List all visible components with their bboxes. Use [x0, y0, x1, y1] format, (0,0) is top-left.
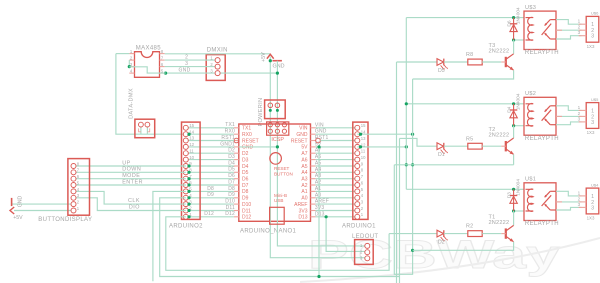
wire net +5V trunk vertical — [405, 18, 407, 190]
wire net 5V branch down — [318, 147, 320, 277]
svg-text:D3: D3 — [507, 192, 513, 198]
svg-text:D9: D9 — [242, 196, 249, 202]
wire net control US2 vertical — [399, 138, 401, 283]
junction junction ARDUINO2 pin3 — [187, 203, 190, 206]
wire wire US2 collector — [513, 126, 515, 138]
svg-text:A7: A7 — [315, 148, 322, 154]
svg-text:3V3: 3V3 — [315, 205, 325, 211]
svg-text:MODE: MODE — [122, 173, 140, 179]
svg-text:UP: UP — [122, 160, 131, 166]
module ARDUINO_NANO1 — [239, 124, 311, 221]
junction junction ARDUINO2 pin14 — [187, 133, 190, 136]
junction junction US2 emitter rail — [405, 163, 408, 166]
pin stub MAX485 pin8 — [160, 53, 165, 55]
wire MAX485 pins2-3 to GND under chip — [129, 67, 165, 73]
junction junction ARDUINO2 pin4 — [187, 196, 190, 199]
wire net control feed US1 — [389, 233, 437, 235]
junction GND1 junction on ICSP GND — [276, 145, 279, 148]
svg-text:1: 1 — [578, 105, 581, 110]
svg-text:A3: A3 — [301, 177, 307, 183]
junction junction ARDUINO2 pin5 — [187, 190, 190, 193]
ARDUINO1 pin circles and numbers — [355, 125, 360, 130]
wire net DOWN — [74, 171, 186, 173]
svg-text:D13: D13 — [315, 211, 325, 217]
svg-text:RST1: RST1 — [315, 135, 329, 141]
connector DATA-DMX — [135, 119, 155, 138]
svg-text:D6: D6 — [507, 20, 513, 26]
svg-text:1: 1 — [578, 190, 581, 195]
svg-text:A4: A4 — [315, 167, 322, 173]
svg-text:5V: 5V — [301, 145, 308, 151]
wire net 5V right — [316, 146, 358, 148]
wire net D13 right — [316, 216, 358, 218]
svg-text:A0: A0 — [315, 192, 322, 198]
wire net US1 NO to connector pin1 — [556, 191, 582, 196]
pin stub MAX485 pin4 — [129, 72, 134, 74]
svg-text:ARDUINO2: ARDUINO2 — [169, 224, 203, 230]
wire DATA-DMX pin1 stub — [140, 127, 142, 134]
wire net RST1 — [186, 140, 234, 142]
junction junction ARDUINO2 pin8 — [187, 171, 190, 174]
svg-text:RELAYPTH: RELAYPTH — [525, 136, 559, 142]
svg-text:D12: D12 — [204, 211, 214, 217]
svg-text:DATA-DMX: DATA-DMX — [129, 88, 135, 119]
pin stub MAX485 pin1 — [129, 53, 134, 55]
wire net +5V rail to US3 coil — [406, 17, 524, 19]
junction junction ARDUINO1 pin14 — [359, 133, 362, 136]
wire net GND trunk vertical — [394, 79, 412, 274]
svg-text:A2: A2 — [315, 180, 322, 186]
svg-text:11: 11 — [189, 148, 194, 153]
wire +5V POWERIN to ICSP col1 — [269, 105, 271, 131]
relay US1 coil — [526, 189, 534, 211]
diode D3 1N4004 — [513, 189, 515, 211]
svg-text:D2: D2 — [438, 239, 445, 245]
svg-text:A1: A1 — [301, 189, 307, 195]
inversion bubble nano RESET right — [316, 138, 321, 143]
svg-text:11: 11 — [361, 149, 366, 154]
supply +5V arrow left — [10, 207, 14, 214]
svg-text:3: 3 — [185, 61, 188, 67]
wire net 3: MAX485 pin6 to DMXIN pin2 — [165, 66, 215, 68]
svg-text:D1: D1 — [438, 152, 445, 158]
wire net D10 — [186, 203, 234, 205]
wire net DIO — [74, 198, 186, 211]
svg-text:R2: R2 — [466, 224, 473, 230]
wire node DATA-DMX: MAX485 pin1 down to ARDUINO2 pin14 — [116, 54, 186, 135]
svg-text:D11: D11 — [226, 205, 235, 211]
svg-text:LEDOUT: LEDOUT — [352, 234, 378, 240]
svg-text:A4: A4 — [301, 170, 307, 176]
wire net D8 — [186, 190, 234, 192]
wire net US1 emitter to GND trunk — [413, 242, 514, 251]
svg-text:VIN: VIN — [315, 122, 324, 128]
svg-text:GND1: GND1 — [220, 141, 235, 147]
svg-text:TX1: TX1 — [242, 126, 251, 132]
pin circle POWERIN 1 — [268, 103, 273, 108]
wire MAX485 pin1 wire — [116, 53, 129, 55]
pin circle DATA-DMX 1 — [139, 122, 144, 127]
wire wire US3 collector — [513, 40, 515, 54]
svg-text:VIN: VIN — [299, 126, 308, 132]
svg-text:BUTTONDISPLAY: BUTTONDISPLAY — [38, 217, 92, 223]
svg-text:13: 13 — [189, 136, 194, 141]
svg-text:ARDUINO_NANO1: ARDUINO_NANO1 — [240, 229, 297, 235]
junction junction D13 — [325, 215, 328, 218]
svg-text:GND: GND — [315, 129, 327, 135]
svg-text:1X3: 1X3 — [587, 216, 595, 221]
wire net GND from ARDUINO1 pin14 to GND trunk — [357, 133, 412, 135]
svg-text:GND: GND — [18, 196, 24, 208]
svg-text:2: 2 — [578, 196, 581, 201]
svg-text:D10: D10 — [225, 199, 235, 205]
ARDUINO2 pin circles and numbers — [183, 125, 188, 130]
ARDUINO_NANO1 right pin stubs — [311, 127, 316, 129]
header ICSP — [267, 122, 289, 135]
svg-text:12: 12 — [189, 142, 194, 147]
relay US3 RELAYPTH — [524, 11, 556, 49]
svg-text:DIO: DIO — [129, 205, 140, 211]
svg-text:1X3: 1X3 — [587, 130, 595, 135]
junction junction diode D6 top — [512, 16, 515, 19]
svg-text:U$3: U$3 — [525, 5, 536, 11]
svg-text:RESET: RESET — [242, 138, 259, 144]
relay US3 coil — [526, 17, 534, 40]
svg-text:D4: D4 — [242, 164, 249, 170]
svg-text:2: 2 — [578, 25, 581, 30]
svg-text:RX0: RX0 — [242, 132, 252, 138]
svg-text:D5: D5 — [228, 167, 235, 173]
diode D4 1N4004 — [513, 104, 515, 126]
svg-text:U$1: U$1 — [525, 177, 536, 183]
connector POWERIN — [265, 100, 286, 119]
wire net A4 right — [316, 171, 358, 173]
svg-text:GND: GND — [242, 145, 254, 151]
svg-text:D6: D6 — [228, 173, 235, 179]
svg-text:GND: GND — [179, 67, 191, 73]
svg-text:A5: A5 — [301, 164, 307, 170]
svg-text:USB: USB — [274, 198, 283, 203]
wire net D6 — [186, 178, 234, 180]
pin circle DMXIN 3 — [215, 71, 220, 76]
wire net D11 — [186, 210, 234, 212]
junction junction ARDUINO2 pin6 — [187, 183, 190, 186]
junction junction 5V trunk US2 — [405, 102, 408, 105]
wire wire US1 collector — [513, 211, 515, 225]
relay US1 RELAYPTH — [524, 183, 556, 221]
svg-text:POWERIN: POWERIN — [258, 98, 264, 127]
wire net control feed US2 — [400, 138, 438, 146]
relay US2 RELAYPTH — [524, 97, 556, 135]
pin circle DMXIN 2 — [215, 64, 220, 69]
svg-text:A7: A7 — [301, 151, 307, 157]
wire net D12 — [186, 216, 234, 218]
svg-text:15: 15 — [361, 123, 366, 128]
wire net GND: MAX485 pin5 through DMXIN pin3 to GND rail — [165, 72, 278, 74]
junction MAX485 pin5 / GND tie — [164, 72, 167, 75]
wire net US2 NC to connector pin3 — [556, 122, 582, 125]
svg-text:RESET: RESET — [274, 166, 290, 171]
junction junction diode D3 top — [512, 188, 515, 191]
wire net control rail from ARDUINO2 pin1 to US1 driver — [166, 217, 389, 270]
pin circle LEDOUT 3 — [365, 256, 370, 261]
wire net GND1 into nano — [239, 146, 278, 148]
wire net RST1 right — [320, 140, 357, 142]
svg-text:2N2222: 2N2222 — [489, 48, 510, 54]
wire net control feed US3 — [397, 61, 438, 63]
svg-text:D10: D10 — [242, 202, 251, 208]
svg-text:TX1: TX1 — [225, 122, 235, 128]
wire wire R5 to T2 base — [482, 145, 501, 147]
pin circle LEDOUT 2 — [365, 250, 370, 255]
ARDUINO_NANO1 left pin stubs — [234, 127, 239, 129]
junction junction GND trunk / US1 emitter — [411, 249, 414, 252]
svg-text:D12: D12 — [242, 215, 251, 221]
junction junction diode D6 bottom — [512, 38, 515, 41]
svg-text:D7: D7 — [228, 179, 235, 185]
svg-text:BUTTON: BUTTON — [274, 171, 293, 176]
svg-text:U$2: U$2 — [525, 91, 536, 97]
svg-text:1: 1 — [578, 19, 581, 24]
wire net US3 NC to connector pin3 — [556, 36, 582, 39]
wire net RX0 — [186, 133, 234, 135]
svg-text:D3: D3 — [242, 157, 249, 163]
junction junction diode D4 bottom — [512, 124, 515, 127]
wire net UP — [74, 165, 186, 167]
IC MAX485 — [135, 52, 160, 78]
svg-text:ENTER: ENTER — [122, 179, 143, 185]
diode D6 1N4004 — [513, 18, 515, 40]
svg-text:1X3: 1X3 — [587, 44, 595, 49]
PCBWay watermark — [300, 233, 600, 282]
svg-text:3: 3 — [578, 116, 581, 121]
svg-text:2N2222: 2N2222 — [489, 220, 510, 226]
svg-text:D2: D2 — [228, 148, 235, 154]
svg-text:U$4: U$4 — [591, 182, 599, 187]
svg-text:RX0: RX0 — [225, 129, 235, 135]
pin stub MAX485 pin2 — [129, 59, 134, 61]
LED D1 — [437, 143, 444, 150]
junction junction diode D4 top — [512, 102, 515, 105]
wire net US2 NO to connector pin1 — [556, 106, 582, 111]
svg-text:+5V: +5V — [13, 215, 23, 221]
svg-text:D4: D4 — [228, 160, 235, 166]
relay US1 switch contacts — [550, 190, 556, 192]
wire net D3 — [186, 159, 234, 161]
junction junction ARDUINO2 pin7 — [187, 177, 190, 180]
BUTTONDISPLAY pin circles and numbers — [71, 164, 76, 169]
supply +5V top — [267, 54, 274, 58]
wire net D9 — [186, 197, 234, 199]
wire net +5V rail to US1 coil — [406, 188, 524, 190]
wire net US3 NO to connector pin1 — [556, 20, 582, 25]
wire wire D5 cathode to R8 — [444, 61, 468, 63]
inversion bubble nano RESET left — [234, 138, 239, 143]
connector LEDOUT — [355, 240, 374, 265]
svg-text:A0: A0 — [301, 196, 307, 202]
svg-text:D8: D8 — [242, 189, 249, 195]
wire wire R8 to T3 base — [482, 61, 501, 63]
svg-text:AREF: AREF — [294, 202, 307, 208]
wire net D4 — [186, 165, 234, 167]
svg-text:D8: D8 — [207, 186, 214, 192]
wire net A0 right — [316, 197, 358, 199]
svg-text:RST1: RST1 — [221, 135, 235, 141]
pin stub MAX485 pin5 — [160, 72, 165, 74]
wire net A5 right — [316, 165, 358, 167]
wire net 3V3 right — [316, 210, 358, 212]
svg-text:D13: D13 — [298, 215, 307, 221]
junction GND rail junction — [276, 72, 279, 75]
usb connector box — [270, 207, 285, 224]
relay US3 switch contacts — [550, 19, 556, 21]
wire net US3 emitter to GND trunk — [413, 70, 514, 79]
wire net D13 to LEDOUT pin2 — [326, 217, 365, 252]
svg-text:R5: R5 — [466, 136, 473, 142]
svg-text:GND: GND — [296, 132, 308, 138]
wire GND POWERIN to ICSP col2 — [276, 105, 278, 131]
junction junction 5V trunk / pin12 — [405, 145, 408, 148]
pin circle POWERIN 2 — [275, 103, 280, 108]
svg-text:CLK: CLK — [128, 198, 140, 204]
wire DATA-DMX pin2 stub — [146, 127, 148, 134]
wire +5V through nano to LEDOUT pin3 — [270, 131, 364, 258]
svg-text:A1: A1 — [315, 186, 322, 192]
connector ARDUINO2 — [182, 122, 201, 219]
svg-text:AREF: AREF — [315, 199, 329, 205]
svg-text:D9: D9 — [207, 192, 214, 198]
DATA-DMX symbol leads — [139, 128, 150, 131]
resistor R2 — [468, 231, 482, 237]
wire net GND to BUTTONDISPLAY pin2 — [12, 203, 74, 205]
wire net AREF right — [316, 203, 358, 205]
relay US1 COM stub — [556, 201, 562, 203]
svg-text:10: 10 — [361, 155, 366, 160]
wire net US1 NC to connector pin3 — [556, 207, 582, 210]
svg-text:D12: D12 — [225, 211, 235, 217]
svg-text:U$5: U$5 — [591, 97, 599, 102]
junction junction 5V at nano — [317, 145, 320, 148]
svg-text:DMXIN: DMXIN — [207, 48, 228, 54]
svg-text:D2: D2 — [242, 151, 249, 157]
svg-text:3: 3 — [578, 30, 581, 35]
LED D5 — [437, 59, 444, 66]
svg-text:1N4004: 1N4004 — [515, 93, 521, 110]
svg-text:D4: D4 — [507, 106, 513, 112]
ground symbol top — [273, 60, 282, 62]
svg-text:RESET: RESET — [291, 138, 308, 144]
wire net A3 right — [316, 178, 358, 180]
junction junction ARDUINO1 pin12 — [359, 145, 362, 148]
svg-text:D9: D9 — [228, 192, 235, 198]
svg-text:3V3: 3V3 — [299, 208, 308, 214]
wire net MODE — [74, 178, 186, 180]
wire net GND1 — [186, 146, 234, 148]
wire net D5 — [186, 171, 234, 173]
wire wire US2 emitter down — [513, 154, 515, 164]
svg-text:Mini-B: Mini-B — [274, 193, 287, 198]
svg-text:1N4004: 1N4004 — [515, 179, 521, 196]
connector BUTTONDISPLAY — [68, 159, 90, 216]
wire net from ARDUINO2 pin5 down (cropped) — [153, 191, 186, 281]
wire net 5V from ARDUINO1 pin12 to 5V trunk — [357, 146, 406, 148]
svg-text:3: 3 — [578, 202, 581, 207]
wire net +5V rail to US2 coil — [406, 103, 524, 105]
junction junction GND trunk / US2 emitter — [411, 163, 414, 166]
connector DMXIN — [206, 55, 225, 81]
svg-text:D7: D7 — [242, 183, 249, 189]
relay US2 coil — [526, 104, 534, 127]
svg-text:U$6: U$6 — [591, 11, 599, 16]
pin stub MAX485 pin7 — [160, 59, 165, 61]
svg-text:A6: A6 — [301, 157, 307, 163]
svg-text:3: 3 — [591, 34, 594, 40]
junction MAX485 pin2-pin3 tie — [128, 65, 131, 68]
pin stub MAX485 pin3 — [129, 66, 134, 68]
resistor R8 — [468, 59, 482, 65]
svg-text:+5V: +5V — [261, 52, 267, 62]
wire net control US3 vertical — [396, 62, 398, 283]
wire net 5V rail bottom from ARDUINO2 pin4 — [160, 198, 400, 277]
wire +5V from MAX485 pin8 to +5V symbol — [165, 53, 271, 55]
wire net US2 coil bottom — [514, 125, 524, 127]
svg-text:A3: A3 — [315, 173, 322, 179]
wire net A7 right — [316, 152, 358, 154]
svg-text:13: 13 — [361, 136, 366, 141]
pin circle DMXIN 1 — [215, 58, 220, 63]
wire wire D2 cathode to R2 — [444, 233, 468, 235]
junction ARDUINO2 pin14 / DATA-DMX — [187, 133, 190, 136]
pin circle LEDOUT 1 — [365, 243, 370, 248]
pin circle DATA-DMX 2 — [145, 122, 150, 127]
wire GND through nano to LEDOUT pin1 — [277, 131, 364, 246]
wire net A2 right — [316, 184, 358, 186]
svg-text:3: 3 — [591, 205, 594, 211]
svg-text:D6: D6 — [242, 177, 249, 183]
svg-text:GND: GND — [273, 63, 285, 69]
svg-text:D3: D3 — [228, 154, 235, 160]
ground symbol left — [11, 198, 13, 206]
junction junction GND trunk / pin14 — [411, 133, 414, 136]
wire net US3 coil bottom — [514, 39, 524, 41]
svg-text:10: 10 — [189, 155, 194, 160]
junction junction 5V bottom rail — [317, 275, 320, 278]
svg-text:A5: A5 — [315, 161, 322, 167]
wire net D2 — [186, 152, 234, 154]
pin stub MAX485 pin6 — [160, 66, 165, 68]
relay US2 switch contacts — [550, 105, 556, 107]
wire net +5V to BUTTONDISPLAY pin1 — [14, 210, 74, 212]
wire net US2 COM to connector pin2 — [556, 115, 582, 117]
junction POWERIN pin1 junction — [269, 109, 272, 112]
wire net US2 emitter to GND trunk — [394, 164, 513, 166]
svg-text:3: 3 — [591, 120, 594, 126]
relay US2 COM stub — [556, 115, 562, 117]
wire MAX485 RE-DE tie — [128, 60, 130, 67]
wire net A6 right — [316, 159, 358, 161]
svg-text:D5: D5 — [438, 68, 445, 74]
wire +5V down to POWERIN pin1 — [269, 57, 271, 106]
svg-text:1N4004: 1N4004 — [515, 7, 521, 24]
wire net GND right — [316, 133, 358, 135]
svg-text:MAX485: MAX485 — [136, 45, 161, 51]
wire GND down to POWERIN pin2 — [276, 61, 278, 106]
svg-text:2: 2 — [578, 111, 581, 116]
wire net 2: MAX485 pin7 to DMXIN pin1 — [165, 59, 215, 61]
svg-text:RELAYPTH: RELAYPTH — [525, 221, 559, 227]
wire net A1 right — [316, 190, 358, 192]
wire wire D1 cathode to R5 — [444, 145, 468, 147]
